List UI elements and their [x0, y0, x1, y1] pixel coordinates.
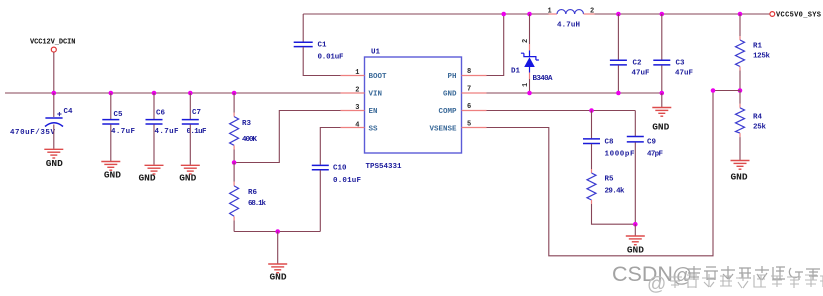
svg-text:C3: C3 [676, 60, 686, 68]
svg-text:0.1uF: 0.1uF [187, 128, 207, 136]
svg-text:8: 8 [467, 68, 471, 76]
svg-text:B340A: B340A [533, 75, 553, 83]
capacitor C7 [182, 93, 207, 165]
ground comp net [626, 236, 645, 256]
wire left input rail [5, 92, 341, 94]
wire EN loop [236, 111, 340, 163]
wire VSENSE feedback loop [487, 91, 741, 256]
svg-text:4.7uH: 4.7uH [557, 22, 580, 30]
svg-text:2: 2 [590, 8, 594, 16]
wire comp GND drop [634, 224, 636, 235]
svg-text:C5: C5 [114, 111, 124, 119]
wire COMP net [487, 110, 636, 112]
node rail-C6 junction [152, 91, 157, 96]
resistor R3 [230, 93, 258, 163]
power port VCC5V0_SYS [770, 12, 821, 20]
svg-text:C4: C4 [64, 108, 74, 116]
svg-text:R3: R3 [242, 120, 252, 128]
svg-text:D1: D1 [511, 68, 521, 76]
ground R6/C10 [268, 264, 287, 283]
svg-text:SS: SS [369, 126, 379, 134]
svg-text:COMP: COMP [438, 108, 457, 116]
svg-text:400K: 400K [242, 136, 257, 144]
wire C3 GND drop [661, 93, 663, 107]
capacitor C1 [294, 14, 344, 76]
svg-text:R4: R4 [753, 114, 763, 122]
svg-text:0.01uF: 0.01uF [318, 54, 344, 62]
wire GND net (pin7) [487, 92, 662, 94]
resistor R6 [230, 163, 267, 232]
svg-text:1: 1 [548, 8, 552, 16]
svg-text:7: 7 [467, 86, 471, 94]
svg-text:GND: GND [179, 172, 196, 183]
svg-text:R5: R5 [605, 176, 615, 184]
capacitor C6 [146, 93, 179, 165]
svg-text:6: 6 [467, 103, 471, 111]
diode D1 B340A [511, 14, 553, 93]
ground C7 [179, 165, 200, 183]
capacitor C8 [583, 111, 635, 170]
capacitor C2 [610, 14, 650, 93]
wire R6/C10 bottom [234, 231, 320, 233]
power port VCC12V_DCIN [30, 39, 76, 53]
node COMP-C8 junction [589, 108, 594, 113]
node rail-R3 junction [232, 91, 237, 96]
inductor 4.7uH [548, 8, 595, 30]
svg-text:C2: C2 [633, 60, 643, 68]
watermark CSDN [612, 262, 692, 295]
svg-text:470uF/35V: 470uF/35V [10, 129, 55, 137]
svg-text:68.1k: 68.1k [248, 200, 266, 208]
svg-text:R6: R6 [248, 189, 258, 197]
pin 6 COMP [438, 103, 486, 116]
svg-text:GND: GND [443, 91, 457, 99]
pin 8 PH [447, 68, 486, 81]
wire PH to rail [487, 14, 504, 76]
resistor R1 [736, 14, 771, 91]
svg-text:GND: GND [104, 170, 121, 181]
svg-text:4.7uF: 4.7uF [155, 128, 179, 136]
node bottom-GND junction [275, 229, 280, 234]
node PH-rail junction [501, 12, 506, 17]
svg-text:4: 4 [355, 122, 359, 130]
wire top rail left segment [303, 13, 548, 15]
node rail-C4 junction [52, 91, 57, 96]
svg-text:4.7uF: 4.7uF [111, 128, 135, 136]
svg-text:C1: C1 [318, 42, 328, 50]
svg-text:GND: GND [627, 245, 644, 256]
svg-text:C10: C10 [333, 165, 347, 173]
capacitor C9 [627, 111, 664, 225]
pin 7 GND [443, 86, 487, 99]
svg-text:5: 5 [467, 121, 471, 129]
node R1-rail junction [738, 12, 743, 17]
svg-text:2: 2 [522, 39, 530, 43]
wire VCC12V drop [53, 52, 55, 93]
svg-text:PH: PH [447, 73, 456, 81]
node D1-rail junction [527, 12, 532, 17]
svg-text:125k: 125k [753, 53, 770, 61]
node C3-rail junction [660, 12, 665, 17]
capacitor C5 [102, 93, 135, 161]
svg-text:25k: 25k [753, 124, 766, 132]
ground C5 [101, 162, 121, 181]
node R1-R4 junction [738, 88, 743, 93]
svg-text:C8: C8 [605, 139, 615, 147]
wire top rail right segment [595, 13, 770, 15]
svg-text:C9: C9 [647, 139, 657, 147]
node rail-C7 junction [188, 91, 193, 96]
wire GND drop [277, 232, 279, 264]
svg-text:U1: U1 [371, 49, 381, 57]
svg-text:47uF: 47uF [675, 70, 693, 78]
svg-text:VCC5V0_SYS: VCC5V0_SYS [776, 12, 821, 20]
svg-text:BOOT: BOOT [369, 73, 388, 81]
svg-text:GND: GND [652, 122, 669, 133]
svg-text:@: @ [647, 274, 666, 295]
svg-text:0.01uF: 0.01uF [333, 177, 361, 185]
svg-text:3: 3 [355, 104, 359, 112]
svg-text:1: 1 [522, 83, 530, 87]
ground R4 [730, 161, 749, 183]
pin 1 BOOT [341, 69, 388, 81]
node R3-R6-EN junction [232, 160, 237, 165]
svg-text:GND: GND [138, 172, 155, 183]
node D1-GNDnet junction [527, 91, 532, 96]
svg-text:TPS54331: TPS54331 [366, 163, 402, 171]
node feedback corner junction [711, 88, 716, 93]
node C2-GNDnet junction [616, 91, 621, 96]
svg-text:47uF: 47uF [632, 70, 650, 78]
svg-text:VCC12V_DCIN: VCC12V_DCIN [30, 39, 76, 47]
node rail-C5 junction [109, 91, 114, 96]
svg-text:R1: R1 [753, 43, 763, 51]
svg-text:EN: EN [369, 108, 378, 116]
watermark glyphs lower row [668, 274, 823, 288]
resistor R5 [587, 169, 635, 224]
watermark glyphs upper row [687, 266, 820, 280]
svg-text:C7: C7 [192, 109, 201, 117]
pin 4 SS [341, 122, 379, 134]
svg-text:GND: GND [730, 172, 747, 183]
node C3-GNDnet junction [660, 91, 665, 96]
svg-text:GND: GND [269, 272, 286, 283]
svg-text:1000pF: 1000pF [605, 151, 635, 159]
ground C4 [44, 149, 63, 169]
pin 3 EN [341, 104, 378, 116]
op-amp U1 TPS54331 [365, 49, 462, 172]
svg-text:47pF: 47pF [647, 151, 663, 159]
resistor R4 [736, 91, 767, 161]
pin 2 VIN [341, 87, 383, 99]
svg-text:VIN: VIN [369, 91, 383, 99]
node C8/C9 bottom junction [633, 222, 638, 227]
capacitor C10 [312, 128, 362, 232]
svg-text:C6: C6 [156, 110, 166, 118]
ground C6 [138, 165, 163, 183]
ground C3 [652, 108, 671, 133]
node C2-rail junction [616, 12, 621, 17]
svg-text:1: 1 [355, 69, 359, 77]
capacitor C3 [653, 14, 693, 93]
pin 5 VSENSE [429, 121, 486, 134]
capacitor C4 [10, 93, 73, 149]
svg-text:29.4k: 29.4k [605, 188, 625, 196]
svg-text:VSENSE: VSENSE [429, 126, 457, 134]
svg-text:2: 2 [355, 87, 359, 95]
svg-text:GND: GND [46, 158, 63, 169]
